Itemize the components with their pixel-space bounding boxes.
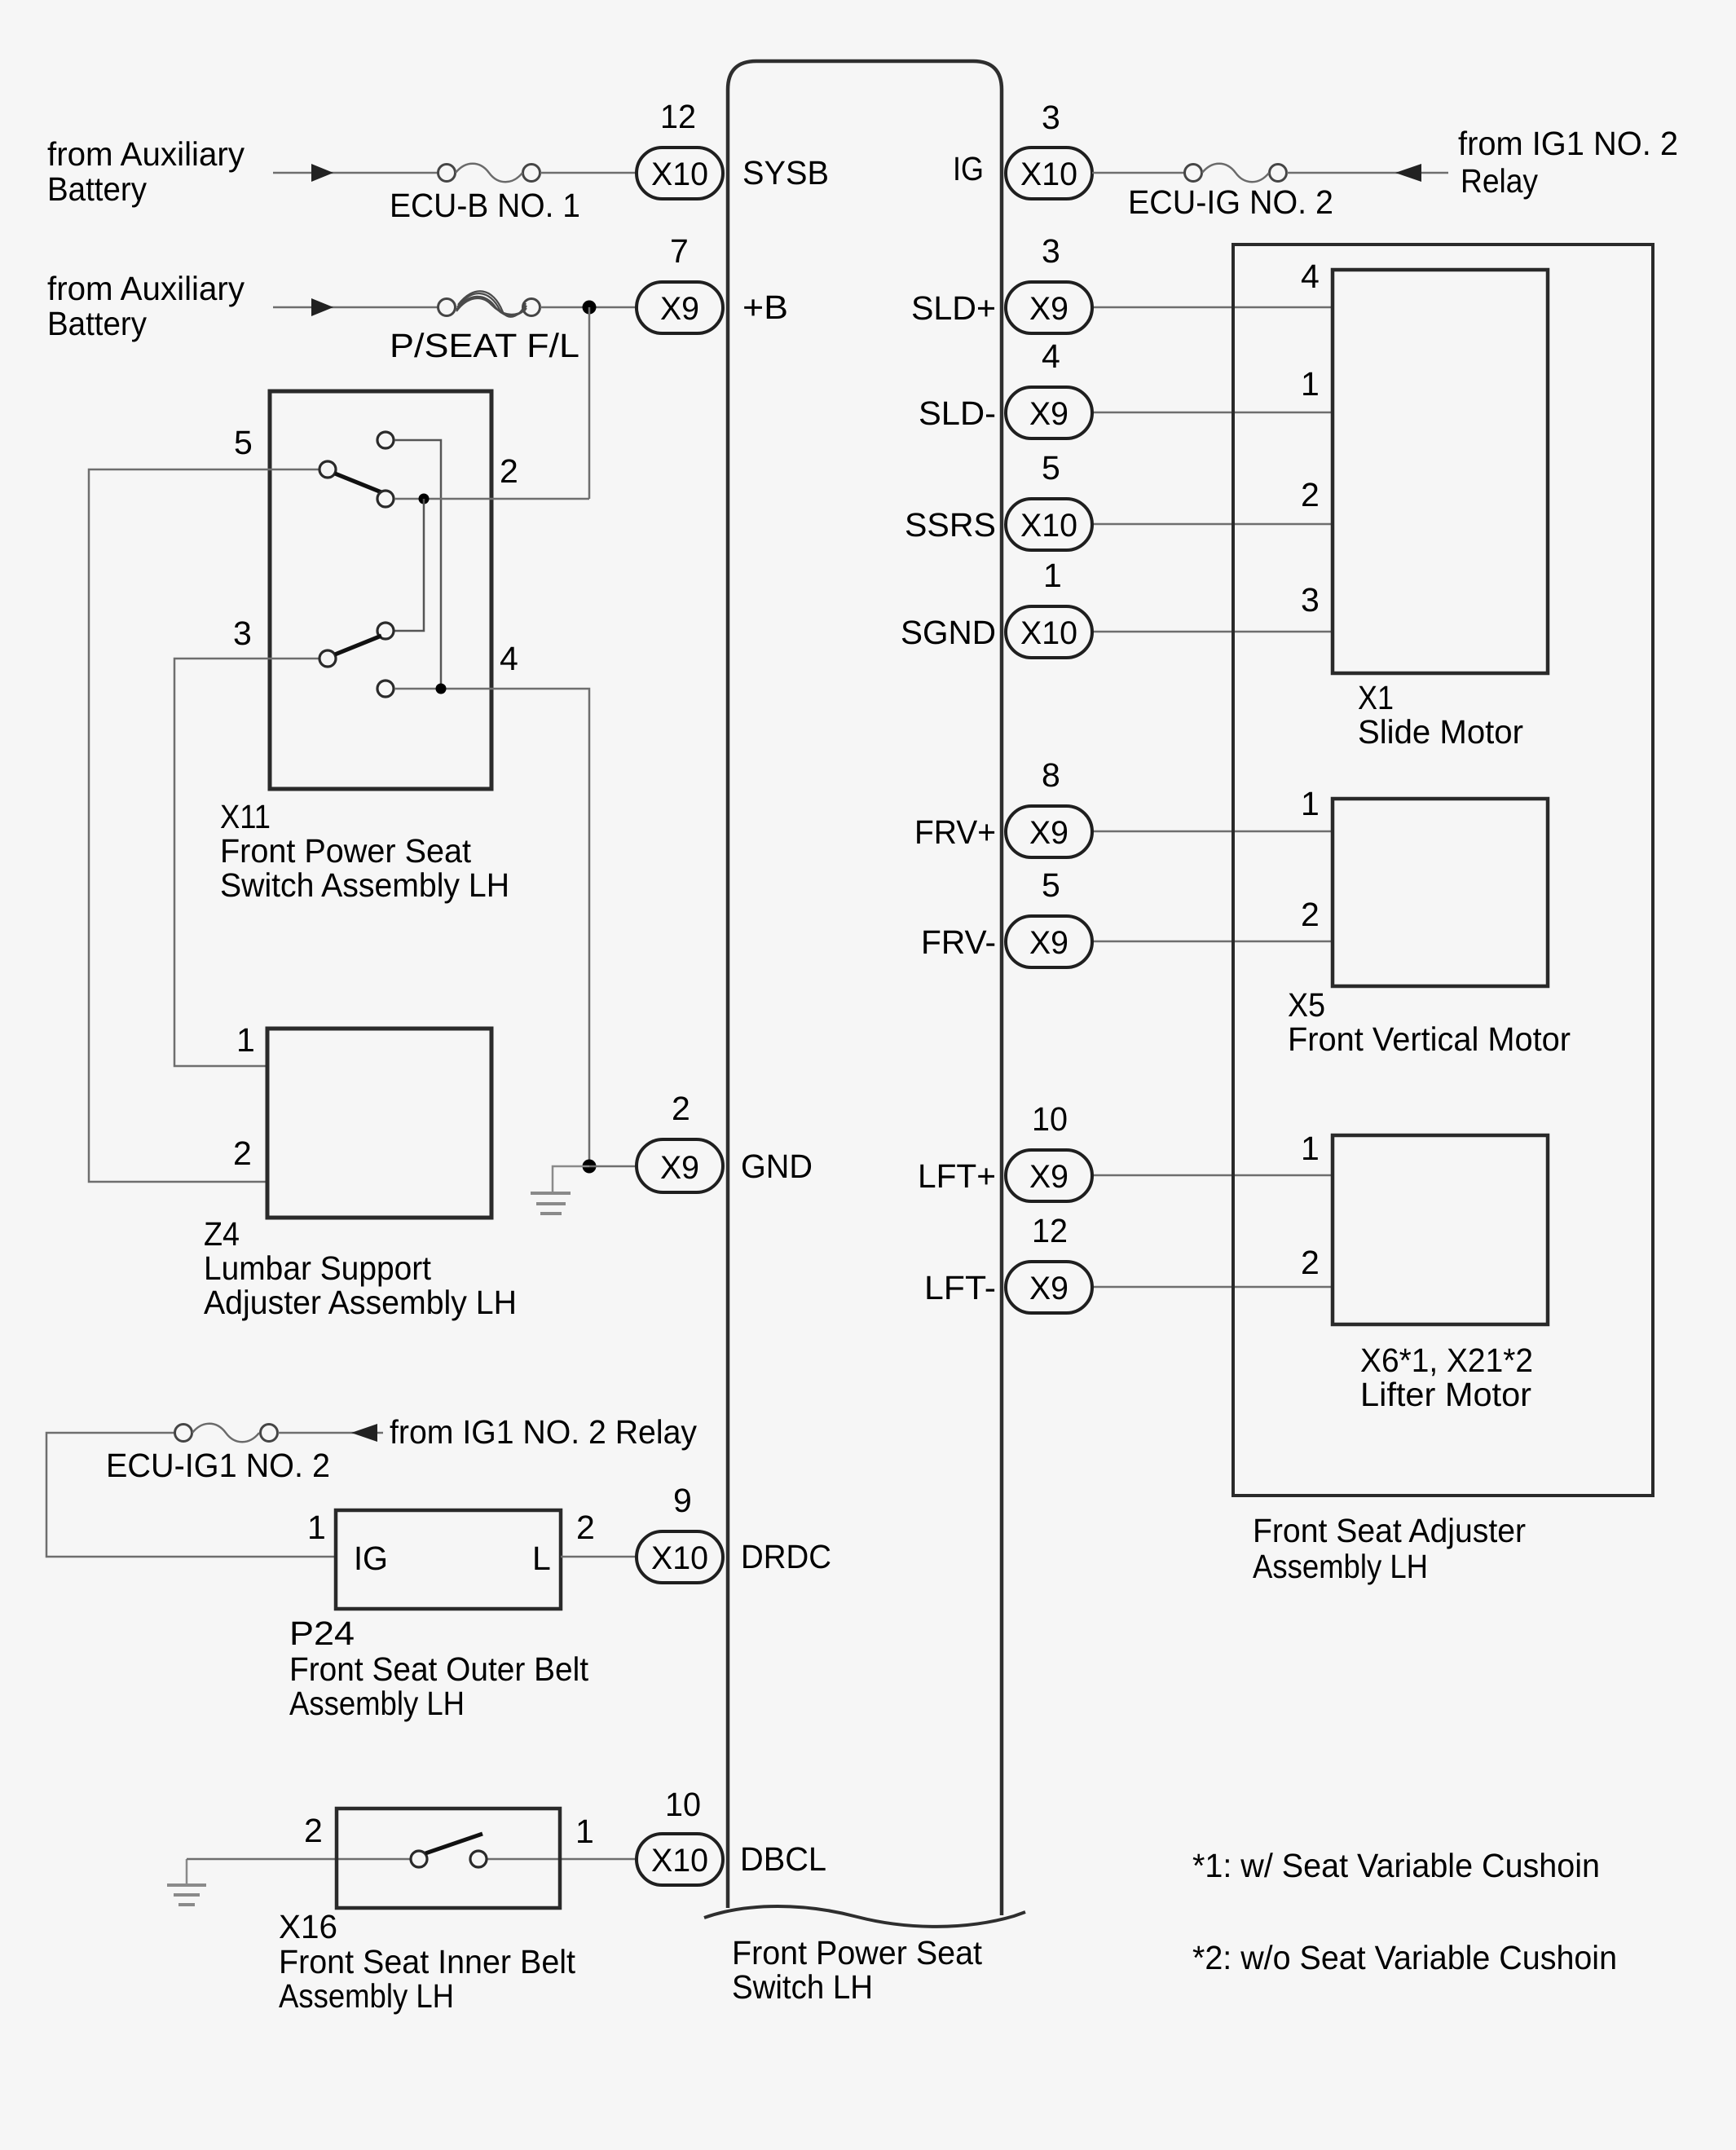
svg-text:X11: X11: [220, 798, 271, 835]
svg-text:from Auxiliary: from Auxiliary: [47, 135, 245, 173]
svg-text:2: 2: [672, 1090, 690, 1127]
svg-text:Assembly LH: Assembly LH: [279, 1977, 454, 2015]
junction pin2 crosslink: [419, 494, 430, 504]
box P24 Front Seat Outer Belt Assembly LH: [336, 1510, 561, 1609]
svg-text:X10: X10: [1020, 615, 1077, 651]
wire +B junction down to X11 pin 2: [588, 307, 591, 499]
svg-text:10: 10: [665, 1786, 701, 1823]
svg-text:12: 12: [660, 98, 696, 135]
label from Auxiliary Battery (+B feed): [47, 270, 245, 342]
svg-text:2: 2: [1301, 1244, 1320, 1281]
svg-text:1: 1: [1301, 1130, 1320, 1167]
svg-text:7: 7: [670, 232, 689, 270]
svg-text:SYSB: SYSB: [742, 154, 829, 192]
switch lever upper: [335, 474, 381, 492]
svg-text:from Auxiliary: from Auxiliary: [47, 270, 245, 307]
svg-text:X9: X9: [1029, 1159, 1068, 1195]
svg-text:FRV-: FRV-: [921, 923, 996, 961]
svg-text:X9: X9: [1029, 925, 1068, 961]
switch pole lower (pin 3): [319, 650, 336, 667]
label from IG1 NO. 2 Relay (right): [1458, 125, 1678, 200]
svg-text:1: 1: [307, 1509, 326, 1546]
svg-text:IG: IG: [354, 1540, 388, 1577]
svg-text:from IG1 NO. 2 Relay: from IG1 NO. 2 Relay: [390, 1413, 697, 1451]
label Front Seat Adjuster Assembly LH: [1253, 1512, 1526, 1585]
connector X10 pin 10 DBCL: [637, 1786, 723, 1885]
svg-text:4: 4: [1301, 258, 1320, 295]
wire IG connector to fuse: [1092, 172, 1184, 174]
connector X9 pin 5 FRV-: [1006, 866, 1092, 967]
connector X10 pin 5 SSRS: [1006, 449, 1092, 550]
svg-text:1: 1: [236, 1021, 255, 1059]
connector X9 pin 4 SLD-: [1006, 337, 1092, 438]
svg-text:Front Seat Adjuster: Front Seat Adjuster: [1253, 1512, 1526, 1549]
svg-text:2: 2: [500, 452, 518, 490]
svg-text:2: 2: [1301, 476, 1320, 513]
svg-text:Relay: Relay: [1461, 162, 1538, 200]
wire P24 pin 2 to DRDC connector: [561, 1556, 637, 1558]
wire FRV+ to vertical motor pin 1: [1092, 830, 1334, 833]
svg-text:DRDC: DRDC: [741, 1538, 831, 1575]
label X1 Slide Motor: [1358, 679, 1523, 751]
arrow into P/SEAT wire: [311, 298, 333, 316]
label X5 Front Vertical Motor: [1288, 986, 1571, 1058]
box Z4 Lumbar Support Adjuster Assembly LH: [267, 1029, 491, 1218]
svg-text:Front Power Seat: Front Power Seat: [732, 1934, 983, 1972]
svg-text:2: 2: [576, 1509, 595, 1546]
switch contact lower upper-throw: [377, 623, 394, 639]
wire X11 pin 5 to Z4 pin 2: [89, 469, 319, 1182]
connector X10 pin 3 IG: [1006, 99, 1092, 199]
svg-text:ECU-IG1 NO. 2: ECU-IG1 NO. 2: [106, 1447, 330, 1484]
connector X9 pin 3 SLD+: [1006, 232, 1092, 333]
svg-text:1: 1: [1301, 785, 1320, 822]
connector X10 pin 12 SYSB: [637, 98, 723, 199]
svg-text:9: 9: [673, 1482, 692, 1519]
motor box X6/X21 Lifter Motor: [1333, 1135, 1548, 1324]
wire SLD- to slide motor pin 1: [1092, 412, 1334, 414]
wire upper throw to crossover: [394, 440, 441, 689]
svg-text:X16: X16: [279, 1908, 337, 1945]
wire fuse to IG1 relay label: [1287, 172, 1448, 174]
svg-text:Assembly LH: Assembly LH: [1253, 1548, 1428, 1585]
wire FRV- to vertical motor pin 2: [1092, 941, 1334, 943]
svg-text:Lifter Motor: Lifter Motor: [1360, 1376, 1531, 1413]
motor box X5 Front Vertical Motor: [1333, 799, 1548, 986]
connector X9 pin 8 FRV+: [1006, 756, 1092, 857]
svg-text:Lumbar Support: Lumbar Support: [204, 1249, 432, 1287]
svg-text:3: 3: [1042, 99, 1060, 136]
svg-text:Front Vertical Motor: Front Vertical Motor: [1288, 1020, 1571, 1058]
svg-text:Adjuster Assembly LH: Adjuster Assembly LH: [204, 1284, 517, 1321]
svg-text:Battery: Battery: [47, 170, 147, 208]
svg-text:4: 4: [500, 640, 518, 677]
svg-text:X6*1, X21*2: X6*1, X21*2: [1360, 1342, 1533, 1379]
svg-text:5: 5: [234, 424, 253, 461]
svg-text:1: 1: [1043, 557, 1062, 594]
svg-text:Slide Motor: Slide Motor: [1358, 713, 1523, 751]
svg-text:2: 2: [1301, 896, 1320, 933]
label X16 Front Seat Inner Belt Assembly LH: [279, 1908, 576, 2015]
wire battery to fusible link: [273, 306, 438, 309]
wire SSRS to slide motor pin 2: [1092, 523, 1334, 526]
wire IG1 relay feed to P24 pin 1: [46, 1433, 336, 1557]
switch contact upper selected throw (pin 2): [377, 491, 394, 507]
svg-text:*1: w/ Seat Variable Cushoin: *1: w/ Seat Variable Cushoin: [1192, 1847, 1600, 1884]
wire fuse to relay label: [278, 1432, 383, 1434]
svg-text:L: L: [532, 1540, 551, 1577]
connector X10 pin 1 SGND: [1006, 557, 1092, 658]
svg-text:2: 2: [304, 1812, 323, 1849]
svg-text:Front Seat Inner Belt: Front Seat Inner Belt: [279, 1943, 576, 1980]
wire X11 pin 4 down to ground junction: [394, 689, 589, 1166]
ECU box Front Power Seat Switch LH: [704, 61, 1025, 1927]
svg-text:SLD-: SLD-: [919, 394, 996, 432]
label Z4 Lumbar Support Adjuster Assembly LH: [204, 1215, 517, 1321]
wire fuse ECU-B to SYSB connector: [540, 172, 637, 174]
label from Auxiliary Battery (SYSB feed): [47, 135, 245, 208]
svg-text:X10: X10: [651, 1540, 708, 1576]
svg-text:2: 2: [233, 1134, 252, 1172]
svg-text:SLD+: SLD+: [911, 289, 996, 327]
fuse ECU-IG NO. 2: [1128, 164, 1333, 221]
motor box X1 Slide Motor: [1333, 270, 1548, 673]
svg-text:Switch LH: Switch LH: [732, 1968, 873, 2006]
ground symbol (X16): [167, 1859, 206, 1905]
svg-text:SSRS: SSRS: [905, 506, 996, 544]
svg-text:X10: X10: [651, 1843, 708, 1879]
switch contact left (X16): [411, 1851, 427, 1867]
switch lever (X16): [425, 1834, 482, 1853]
svg-text:8: 8: [1042, 756, 1060, 794]
svg-text:ECU-IG NO. 2: ECU-IG NO. 2: [1128, 183, 1333, 221]
connector X9 pin 12 LFT-: [1006, 1212, 1092, 1313]
svg-text:Front Power Seat: Front Power Seat: [220, 832, 472, 870]
switch lever lower: [335, 636, 381, 654]
svg-text:Battery: Battery: [47, 305, 147, 342]
svg-text:FRV+: FRV+: [914, 813, 996, 851]
svg-text:X10: X10: [1020, 156, 1077, 192]
svg-text:P/SEAT F/L: P/SEAT F/L: [390, 327, 579, 364]
svg-text:Z4: Z4: [204, 1215, 240, 1253]
label X11 Front Power Seat Switch Assembly LH: [220, 798, 509, 904]
junction +B branch: [583, 301, 597, 315]
wire junction to GND connector: [589, 1165, 637, 1168]
connector X9 pin 2 GND: [637, 1090, 723, 1192]
svg-text:3: 3: [233, 615, 252, 652]
svg-text:Assembly LH: Assembly LH: [289, 1685, 465, 1722]
svg-text:3: 3: [1042, 232, 1060, 270]
svg-text:X10: X10: [1020, 508, 1077, 544]
junction pin4 crosslink: [436, 684, 447, 694]
svg-text:10: 10: [1032, 1100, 1068, 1138]
arrow from IG1 NO. 2 relay (right): [1395, 164, 1421, 182]
label P24 Front Seat Outer Belt Assembly LH: [289, 1615, 589, 1722]
wire LFT- to lifter motor pin 2: [1092, 1286, 1334, 1289]
svg-text:X5: X5: [1288, 986, 1325, 1024]
svg-text:GND: GND: [741, 1148, 813, 1185]
wire X11 pin 3 to Z4 pin 1: [174, 659, 319, 1066]
fuse ECU-IG1 NO. 2: [106, 1424, 330, 1484]
wire SLD+ to slide motor pin 4: [1092, 306, 1334, 309]
ground symbol (GND): [531, 1193, 571, 1214]
svg-text:X9: X9: [1029, 291, 1068, 327]
connector X9 pin 7 +B: [637, 232, 723, 333]
svg-text:X9: X9: [660, 291, 699, 327]
box Front Seat Adjuster Assembly LH: [1233, 245, 1653, 1496]
svg-text:X9: X9: [660, 1150, 699, 1186]
switch box X11 Front Power Seat Switch Assembly LH: [270, 391, 491, 789]
switch pole upper (pin 5): [319, 461, 336, 478]
svg-text:4: 4: [1042, 337, 1060, 375]
svg-text:DBCL: DBCL: [740, 1840, 826, 1878]
svg-text:X10: X10: [651, 156, 708, 192]
svg-text:LFT+: LFT+: [918, 1157, 996, 1195]
svg-text:ECU-B NO. 1: ECU-B NO. 1: [390, 187, 580, 224]
svg-text:1: 1: [1301, 365, 1320, 403]
junction ground node: [583, 1160, 597, 1174]
svg-text:from IG1 NO. 2: from IG1 NO. 2: [1458, 125, 1678, 162]
switch contact right (X16): [470, 1851, 487, 1867]
svg-text:3: 3: [1301, 581, 1320, 619]
svg-text:Front Seat Outer Belt: Front Seat Outer Belt: [289, 1650, 589, 1688]
svg-text:Switch Assembly LH: Switch Assembly LH: [220, 866, 509, 904]
svg-text:X9: X9: [1029, 396, 1068, 432]
svg-text:LFT-: LFT-: [924, 1269, 996, 1306]
label X6*1 X21*2 Lifter Motor: [1360, 1342, 1533, 1413]
connector X9 pin 10 LFT+: [1006, 1100, 1092, 1201]
fuse ECU-B NO. 1: [390, 164, 580, 224]
svg-text:X1: X1: [1358, 679, 1394, 716]
svg-text:SGND: SGND: [901, 614, 996, 651]
switch contact lower bottom-throw (pin 4): [377, 681, 394, 697]
svg-text:*2: w/o Seat Variable Cushoin: *2: w/o Seat Variable Cushoin: [1192, 1939, 1617, 1976]
fusible link P/SEAT F/L: [390, 291, 579, 364]
wire LFT+ to lifter motor pin 1: [1092, 1174, 1334, 1177]
switch contact upper throw: [377, 432, 394, 448]
svg-text:5: 5: [1042, 866, 1060, 904]
connector X10 pin 9 DRDC: [637, 1482, 723, 1583]
label Front Power Seat Switch LH: [732, 1934, 983, 2006]
svg-text:P24: P24: [289, 1615, 355, 1652]
wire battery to fuse ECU-B: [273, 172, 438, 174]
wire X11 pin 2 to +B junction: [394, 498, 589, 500]
wire ground to X16 pin 2 and through switch to pin 1: [187, 1858, 637, 1861]
arrow from IG1 NO. 2 relay: [351, 1424, 377, 1442]
svg-text:1: 1: [575, 1813, 594, 1850]
arrow into ECU-B wire: [311, 164, 333, 182]
wire crosslink pin2 to lower throw: [394, 499, 424, 631]
wire fusible link to +B connector: [540, 306, 637, 309]
svg-text:+B: +B: [742, 289, 788, 326]
svg-text:X9: X9: [1029, 1271, 1068, 1306]
box X16 Front Seat Inner Belt Assembly LH: [337, 1809, 560, 1908]
wire junction to ground symbol: [553, 1166, 589, 1192]
wire SGND to slide motor pin 3: [1092, 631, 1334, 633]
svg-text:12: 12: [1032, 1212, 1068, 1249]
svg-text:5: 5: [1042, 449, 1060, 487]
svg-text:IG: IG: [953, 150, 984, 187]
svg-text:X9: X9: [1029, 815, 1068, 851]
